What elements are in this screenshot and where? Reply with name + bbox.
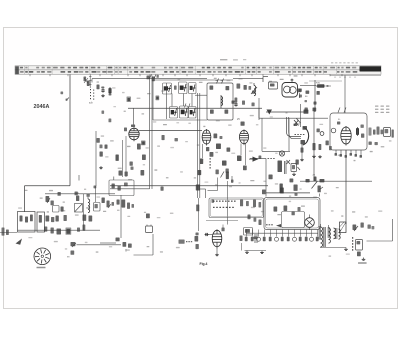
wire grid bus: [128, 107, 262, 109]
wire v289: [288, 118, 290, 151]
comp x106: [105, 145, 108, 149]
comp 297 y164: [296, 160, 301, 171]
dashes above PSU: [266, 224, 281, 227]
cluster x128 y245: [123, 242, 132, 252]
K1 contents: [20, 215, 33, 223]
comp 271 y177: [269, 175, 273, 180]
bus step right: [266, 192, 310, 194]
coil box S6 row2: [180, 106, 189, 118]
capacitor C1: [101, 87, 104, 93]
bus lower y188.8: [110, 188, 150, 190]
link wires row1-row2: [172, 94, 192, 107]
comp row y173: [119, 170, 145, 176]
comp col x101: [99, 152, 103, 169]
svg-text:a.b: a.b: [89, 101, 93, 105]
pot with arrow: [46, 196, 51, 203]
wire top right feed: [300, 85, 331, 87]
tube B6 detail: [212, 229, 222, 248]
HT vertical x346: [345, 150, 347, 224]
wire v198.5 down: [198, 198, 200, 231]
resistor in box: [356, 127, 358, 136]
comps left of PSU: [248, 215, 262, 226]
pickup lead pair: [287, 117, 302, 139]
comp on AVC pair: [196, 185, 200, 191]
switch unit box: [269, 82, 278, 89]
comp box x97 y207: [94, 203, 101, 212]
marks near x70: [61, 92, 70, 101]
resistor R30 top: [316, 83, 326, 88]
wire v300: [300, 104, 302, 127]
comp x121 y239: [100, 238, 120, 244]
comp 296 y189: [294, 185, 298, 196]
wire right loop: [367, 219, 393, 241]
wire left stub: [0, 232, 17, 234]
comp x85 y218: [83, 215, 93, 222]
dial lamp: [279, 151, 284, 156]
output transformer: [334, 228, 341, 239]
strip connection ticks: [30, 74, 342, 76]
tube pin leads below box: [335, 150, 363, 158]
junction blob left: [267, 110, 273, 115]
switch comps x355: [353, 223, 375, 232]
res column x314: [300, 143, 322, 161]
capacitor C31: [317, 91, 320, 95]
diode arrow: [249, 156, 261, 162]
bus y233 and ground: [245, 233, 347, 253]
dashes above coil pack: [150, 75, 157, 79]
capacitor C30: [305, 91, 309, 99]
output stage box: [330, 113, 367, 150]
wire tube bus y130: [139, 130, 202, 132]
comp 239 y158: [237, 156, 242, 162]
svg-text:R..: R..: [338, 119, 341, 121]
blob x73 y253: [67, 251, 74, 259]
ground antenna section: [101, 94, 105, 97]
wire v153: [152, 234, 154, 255]
label in box: [338, 119, 341, 121]
box inner comps: [337, 122, 364, 138]
comp below bus x162: [94, 186, 164, 191]
oscillator coil L5: [251, 83, 257, 96]
wiper bracket: [301, 126, 309, 145]
vert comp 281 y188: [280, 184, 283, 193]
scattered value labels: [18, 75, 391, 256]
wire y245: [77, 244, 122, 246]
AVC line pair: [198, 93, 200, 198]
components right of B2: [214, 134, 223, 140]
wire y151: [262, 118, 290, 151]
marker ticks: [185, 104, 191, 108]
wire y158.5: [250, 158, 275, 196]
corner x205: [200, 189, 206, 198]
box with diagonal: [75, 204, 83, 213]
comp cluster x47-57 y219: [46, 216, 59, 223]
dashed link x210: [210, 158, 211, 169]
comp x65 y218: [64, 215, 67, 221]
comp col x98: [97, 138, 103, 148]
tube B2 IF amp: [202, 129, 211, 146]
resistor R1: [109, 87, 112, 96]
caps row y109: [305, 108, 317, 112]
svg-text:Fig.4: Fig.4: [200, 262, 208, 266]
wire v345 to output box: [344, 76, 346, 114]
B6 leads: [205, 235, 219, 256]
X marks above trafo: [287, 160, 291, 164]
comp x197 y243: [195, 236, 199, 249]
resistor R2: [127, 97, 132, 103]
comp row y172: [198, 166, 247, 176]
twin verticals mid: [123, 136, 127, 177]
wire v314: [313, 108, 315, 181]
interstage trafo: [278, 161, 287, 175]
switch unit box A: [209, 198, 264, 218]
comps right of S4: [237, 84, 252, 90]
comp 292 y167: [291, 164, 297, 176]
IF transformer box S4: [207, 83, 233, 120]
module box K1: [18, 212, 36, 233]
gang stator lead: [291, 79, 294, 83]
tube B3 detector: [239, 129, 248, 145]
comp box x55 y209: [53, 206, 60, 213]
components left of B1: [124, 128, 127, 132]
tube B5 inside box: [341, 126, 351, 146]
comp 201 y161: [200, 159, 204, 165]
box A contacts row2: [213, 207, 234, 208]
wire y255: [134, 254, 154, 256]
comp x253 y104: [252, 103, 255, 107]
wire to bottom left L: [25, 186, 71, 212]
tuning gang assembly: [282, 83, 298, 98]
resistor x143 upper: [141, 141, 146, 146]
B6 grid comp: [196, 233, 209, 237]
wire y220: [206, 219, 238, 221]
antenna coil L1: [84, 75, 92, 89]
speaker: [340, 222, 347, 233]
wire y112 link: [266, 111, 308, 113]
switch cluster on bus: [306, 175, 325, 189]
fine print near strip end: [331, 62, 358, 77]
svg-text:2046A: 2046A: [34, 104, 50, 110]
label Fig4: [200, 262, 208, 266]
coil box S7 row2: [189, 107, 197, 119]
comp pair x68 y232: [66, 228, 72, 235]
dashed linkage: [352, 237, 353, 251]
mains label: [358, 262, 367, 264]
comp x163 y137: [162, 135, 165, 140]
coil pack enclosure: [153, 80, 233, 120]
bus y193.8: [45, 193, 115, 195]
comp x131: [130, 162, 133, 166]
pencil arrow mark: [16, 239, 23, 245]
comp x236 y100: [235, 98, 246, 105]
chassis type label 2046A: [34, 104, 50, 110]
PSU inner box: [282, 212, 305, 228]
wire v121: [120, 195, 122, 238]
cap x117: [116, 155, 119, 161]
comp x176 y140: [175, 138, 178, 141]
top right fine print: [375, 106, 389, 114]
pot below switch: [318, 186, 324, 197]
main bus y185.7: [110, 185, 268, 187]
sparse comps mid-left: [102, 111, 112, 123]
coil box S3 row1: [189, 83, 197, 94]
wire AVC y95: [195, 94, 207, 96]
trimmer arrows above S4: [216, 79, 224, 84]
small circle in box: [331, 128, 336, 133]
mains unit: [356, 240, 366, 261]
socket label: [37, 267, 46, 269]
osc coil bumps: [88, 197, 90, 213]
wire y118: [259, 108, 328, 118]
cap pair x256 y238: [254, 234, 258, 243]
cap x78 y199: [76, 196, 79, 202]
grid cap B1: [131, 108, 135, 127]
junction blob right: [304, 110, 309, 114]
bus y181 right: [300, 180, 372, 182]
row comps y230: [44, 225, 85, 235]
module box K2: [37, 212, 45, 232]
dashes y134.5: [295, 133, 305, 136]
tuning gang dashed link: [90, 89, 94, 100]
left edge comps: [2, 228, 9, 236]
ground below trafo: [344, 248, 348, 251]
tube socket bottom view: [34, 248, 51, 265]
capacitor C2: [156, 96, 160, 101]
wire v166 gap: [95, 131, 97, 186]
antenna input comp: [97, 85, 100, 90]
B6 anode comp: [222, 225, 225, 232]
verticals in module area: [84, 186, 96, 230]
tick x79: [78, 175, 80, 181]
bottom bus y230: [18, 229, 101, 231]
comp x228 resistor: [221, 172, 234, 225]
wire left drop x70: [69, 75, 71, 186]
rect tube B7: [305, 215, 315, 231]
comp box x149 y229: [146, 225, 153, 233]
comp 224 y163: [222, 161, 227, 166]
coil box S1 row1: [163, 83, 172, 94]
comps at spindle top: [147, 75, 159, 81]
dial strip footer line: [330, 74, 381, 76]
comp x139: [137, 144, 141, 150]
comp x148 y216: [146, 214, 150, 219]
L wire x217: [208, 178, 218, 191]
comps right of bracket: [317, 129, 332, 151]
cap x62 y210: [61, 207, 64, 212]
mains transformer: [319, 224, 331, 247]
wire osc to gang: [259, 77, 268, 121]
tube B1 mixer: [129, 127, 139, 141]
right end unit: [384, 128, 394, 138]
comp 207 y149: [206, 147, 209, 151]
comp x52 y203: [51, 201, 54, 206]
dial strip header block: [360, 66, 382, 71]
pickup contact X marks: [294, 119, 301, 127]
junction x315: [305, 100, 317, 105]
tiny label A1: [89, 101, 93, 105]
padder C20: [298, 89, 301, 99]
gang spindle lines: [150, 76, 153, 190]
dial scale strip: [15, 59, 381, 74]
far right comp pair: [369, 142, 378, 146]
bus comps y193: [58, 192, 90, 197]
comp x73 y245: [71, 242, 77, 247]
comp 228 y149: [227, 148, 231, 152]
right caps column: [369, 127, 384, 136]
wire v315: [314, 80, 316, 112]
coil box S5 row2: [170, 107, 178, 119]
resistor x282 y191: [262, 188, 284, 195]
decoupling row under PSU: [245, 230, 319, 242]
arrows above box: [338, 108, 346, 113]
link dashes x183 y242: [179, 240, 193, 244]
comp x144: [142, 155, 146, 161]
comps in PSU top: [274, 206, 301, 216]
audio cluster: [102, 198, 135, 209]
wires tube stems: [203, 144, 246, 166]
box A contacts row1: [212, 200, 236, 203]
comp x198 y207: [196, 205, 199, 212]
comp 217-222 y146: [216, 144, 221, 150]
left PSU feed: [244, 228, 253, 236]
wire top feed: [92, 79, 263, 83]
label above B3: [237, 118, 240, 121]
comp pair x292 y181: [290, 179, 294, 183]
left column comps x300: [299, 89, 302, 98]
comp x241 y239: [240, 236, 243, 251]
comp x132 y169: [131, 167, 134, 170]
box top edge dashes: [309, 80, 342, 82]
volume unit box: [109, 177, 134, 196]
wire y151 to trafo: [261, 151, 263, 158]
comp between S1 S2: [174, 86, 177, 90]
PSU outer box: [264, 198, 320, 230]
comp 211 y154: [210, 152, 214, 157]
components above B3: [232, 101, 245, 126]
box A comps right: [240, 200, 261, 208]
coil box S2 row1: [179, 82, 188, 94]
